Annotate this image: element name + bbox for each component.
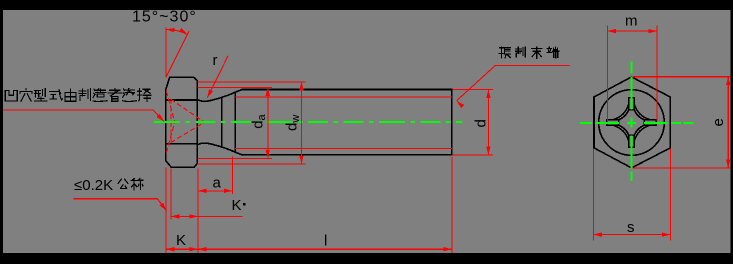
phillips recess slot bottom <box>629 135 635 147</box>
recess diameter dashed vertical <box>170 99 172 143</box>
phillips recess slot top <box>629 98 635 110</box>
recess cone lower dashed <box>171 122 205 142</box>
thread start chamfer top <box>235 90 242 93</box>
svg-text:m: m <box>625 13 638 30</box>
recess inner arc top-left <box>619 110 629 120</box>
hidden cross recess (red dashed) <box>166 91 204 153</box>
l left extension (bearing face) <box>197 231 199 253</box>
note: nominal (gong cheng) <box>118 179 128 188</box>
side view centerline (green) <box>154 121 463 123</box>
face indentation cone upper dashed <box>166 91 175 122</box>
e dimension line <box>727 77 729 168</box>
e top extension <box>633 76 731 78</box>
arrow m right <box>648 29 657 33</box>
recess outer arc top-right <box>634 104 649 119</box>
arrow 0.2K leader <box>160 203 169 212</box>
recess cone upper dashed <box>171 99 205 122</box>
end view vertical centerline <box>630 62 632 181</box>
leader: rolled end underline <box>496 64 570 66</box>
s left extension <box>592 149 594 241</box>
dw extension bottom <box>198 163 306 165</box>
0.2K leader <box>73 199 166 211</box>
dw extension top <box>198 81 306 83</box>
angle dim arc <box>166 29 187 34</box>
neck vertical line <box>221 97 223 147</box>
arrow e bottom <box>726 160 730 169</box>
m left extension <box>606 26 608 121</box>
l right extension <box>451 157 453 253</box>
recess outer arc top-left <box>613 104 628 119</box>
arrows, side view <box>157 27 491 251</box>
svg-text:s: s <box>627 219 635 236</box>
angle dim extension vertical <box>165 28 167 78</box>
arrow da bottom <box>266 150 270 159</box>
thread root line bottom <box>235 147 452 149</box>
note: recess type chosen by manufacturer <box>5 91 17 101</box>
shank end face <box>451 90 453 155</box>
thread start vertical <box>234 92 236 152</box>
arrow s right <box>662 232 671 236</box>
hex head outline (side view) <box>166 77 197 167</box>
svg-text:e: e <box>710 118 727 126</box>
shank bottom edge <box>242 154 452 156</box>
svg-text:l: l <box>324 233 327 250</box>
shank top edge <box>242 89 452 91</box>
phillips recess slot right <box>644 120 656 126</box>
a dim right extension <box>231 157 233 195</box>
arrow dw top <box>299 82 303 91</box>
head facet line upper <box>167 99 198 101</box>
arrow l left <box>198 247 207 251</box>
under-head fillet curve bottom <box>197 143 235 152</box>
arrow e top <box>726 77 730 86</box>
K' left extension <box>170 169 172 220</box>
K prime dot <box>243 203 246 206</box>
svg-text:15°~30°: 15°~30° <box>132 9 197 26</box>
da extension bottom <box>198 157 273 159</box>
svg-text:K: K <box>176 232 186 249</box>
end view centerlines (green) <box>580 62 694 181</box>
head facet line lower <box>167 143 198 145</box>
angle dim slant side <box>166 31 189 77</box>
hexagon head outline <box>594 77 670 168</box>
m right extension <box>656 26 658 121</box>
s right extension <box>669 149 671 241</box>
arrow K' left <box>171 214 180 218</box>
d dimension line <box>487 90 489 155</box>
arrow angle arc left <box>166 27 175 32</box>
note: rolled end <box>499 47 511 58</box>
arrow a right <box>224 189 233 193</box>
svg-text:r: r <box>213 52 218 69</box>
svg-text:K: K <box>232 197 242 214</box>
d extension top <box>452 89 493 91</box>
phillips recess slot left <box>607 120 619 126</box>
arrow s left <box>593 232 602 236</box>
da extension top <box>198 86 273 88</box>
arrow l right <box>443 247 452 251</box>
leader: r fillet <box>207 56 228 98</box>
under-head fillet curve top <box>197 92 235 101</box>
head circle <box>599 90 665 156</box>
arrow r leader <box>205 89 213 99</box>
arrow a left <box>198 189 207 193</box>
thread start chamfer bottom <box>235 152 242 155</box>
svg-text:a: a <box>213 175 222 192</box>
arrow m left <box>607 29 616 33</box>
leader: recess note <box>3 110 164 122</box>
arrow angle arc right <box>179 28 189 36</box>
dw dimension line <box>301 82 303 164</box>
svg-text:≤0.2K: ≤0.2K <box>74 177 113 194</box>
arrow dw bottom <box>299 156 303 165</box>
recess inner arc top-right <box>634 110 644 120</box>
arrow d top <box>486 90 490 99</box>
arrow K left <box>166 247 175 251</box>
recess outer arc bottom-left <box>613 125 628 140</box>
arrow da top <box>266 87 270 96</box>
a dimension line <box>198 190 232 192</box>
recess inner arc bottom-right <box>634 125 644 135</box>
leader: rolled end diagonal <box>457 65 496 101</box>
recess outer arc bottom-right <box>634 125 649 140</box>
da dimension line <box>267 87 269 158</box>
K' dimension line <box>171 215 243 217</box>
thread root lines (red) <box>235 97 452 148</box>
svg-text:d: d <box>473 119 490 127</box>
d extension bottom <box>452 154 493 156</box>
arrow K right <box>189 247 198 251</box>
e bottom extension <box>633 167 731 169</box>
arrow d bottom <box>486 146 490 155</box>
end view horizontal centerline <box>580 122 694 124</box>
arrow recess leader <box>157 114 166 123</box>
face indentation cone lower dashed <box>166 122 175 153</box>
a dim left extension <box>197 169 199 231</box>
m dimension line <box>607 30 656 32</box>
arrow K' right <box>189 214 198 218</box>
arrow rolled-end leader <box>455 99 464 108</box>
K and l dimension line <box>166 248 452 250</box>
s dimension line <box>593 234 670 236</box>
K left extension <box>165 168 167 253</box>
recess inner arc bottom-left <box>619 125 629 135</box>
thread root line top <box>235 96 452 98</box>
